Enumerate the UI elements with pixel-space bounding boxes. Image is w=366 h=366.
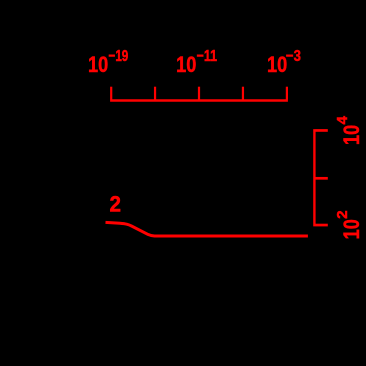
svg-text:−3: −3	[286, 48, 301, 65]
svg-text:10: 10	[339, 219, 364, 239]
top axis tick 10^-19	[110, 87, 112, 100]
top axis minor tick 1	[154, 87, 156, 100]
data curve	[106, 222, 308, 236]
top axis tick 10^-11	[198, 87, 200, 100]
top x2 axis line	[110, 99, 288, 102]
svg-text:−19: −19	[109, 48, 129, 65]
label 10^-19	[88, 48, 128, 77]
right axis tick 10^4	[316, 129, 328, 132]
right y2 axis line	[313, 129, 315, 226]
label 10^2 (rotated)	[334, 210, 364, 239]
svg-text:10: 10	[176, 52, 196, 77]
top axis minor tick 2	[242, 87, 244, 100]
svg-text:10: 10	[339, 125, 364, 145]
svg-text:−11: −11	[197, 48, 218, 65]
label 10^-3	[267, 48, 301, 77]
top axis tick 10^-3	[286, 87, 288, 100]
svg-text:2: 2	[334, 210, 351, 219]
svg-text:10: 10	[267, 52, 287, 77]
right axis tick 10^2	[316, 224, 328, 227]
svg-text:2: 2	[110, 192, 122, 217]
right axis tick 10^3	[316, 177, 328, 180]
label 10^4 (rotated)	[334, 115, 364, 145]
svg-text:10: 10	[88, 52, 108, 77]
label 10^-11	[176, 48, 217, 77]
svg-text:4: 4	[334, 115, 351, 124]
